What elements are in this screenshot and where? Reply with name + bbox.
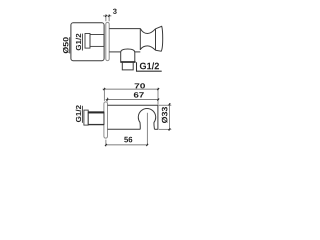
outlet block bottom edge (thick) <box>120 61 135 63</box>
label 56 <box>124 137 132 143</box>
outlet nipple G1/2 <box>122 63 133 70</box>
label G12 top rot <box>76 105 81 122</box>
holder neck top contour <box>140 29 155 34</box>
dimension 70 lines <box>103 88 159 105</box>
dimension O33 lines <box>159 103 172 131</box>
label O50 rot <box>63 37 69 53</box>
keyhole arc with slot walls <box>138 109 155 130</box>
label 67 <box>134 92 144 97</box>
dimension 67 ticks <box>106 99 159 101</box>
inlet nipple body (top view) <box>88 112 104 124</box>
wall plate top view (edge-on) <box>104 102 108 138</box>
outlet block dome <box>121 49 135 52</box>
wall flange front view (square escutcheon) <box>71 23 104 61</box>
outlet block <box>121 52 135 62</box>
dimension O33 ticks <box>168 104 170 131</box>
dimension 3 extension lines <box>103 14 111 21</box>
holder neck bottom contour <box>140 46 155 50</box>
holder cup outer face <box>156 26 163 51</box>
dimension 3 ticks <box>105 15 110 17</box>
body bottom edge left of outlet block <box>109 51 121 53</box>
leader line of label O50 <box>69 37 71 53</box>
label G12 front rot <box>76 34 81 51</box>
body bottom edge right of outlet block <box>135 51 141 53</box>
right edge <box>157 105 159 129</box>
leader line of front G1/2 label <box>81 34 83 51</box>
holder body outline (top view) <box>108 105 158 129</box>
label G12 side <box>140 62 159 69</box>
dimension 70 ticks <box>103 88 159 90</box>
inlet nipple thick bottom edge <box>88 124 104 126</box>
body outline (side view) <box>109 26 163 71</box>
dimension 67 lines <box>106 98 159 102</box>
G1/2 inlet port step (front view) <box>85 34 90 49</box>
bottom edge left <box>108 128 141 130</box>
inlet nipple step (top view) <box>84 110 88 125</box>
label 70 <box>135 83 145 88</box>
wall plate side view (edge-on) <box>106 22 109 60</box>
leader line of top-view G1/2 label <box>81 106 83 123</box>
label O33 rot <box>162 107 168 123</box>
bottom edge right <box>155 128 158 130</box>
holder spool left edge <box>139 28 141 50</box>
G1/2 inlet port body (front view) <box>90 35 104 47</box>
slot centre line <box>146 113 148 145</box>
dimension 56 lines <box>106 140 148 147</box>
body top edge <box>109 28 140 30</box>
label 3 <box>113 9 117 14</box>
holder cup rim inner line <box>155 29 157 51</box>
leader line of side G1/2 label <box>137 62 162 71</box>
top edge <box>108 104 158 106</box>
inlet nipple thick top edge <box>88 111 104 113</box>
dimension 56 ticks <box>105 144 148 146</box>
